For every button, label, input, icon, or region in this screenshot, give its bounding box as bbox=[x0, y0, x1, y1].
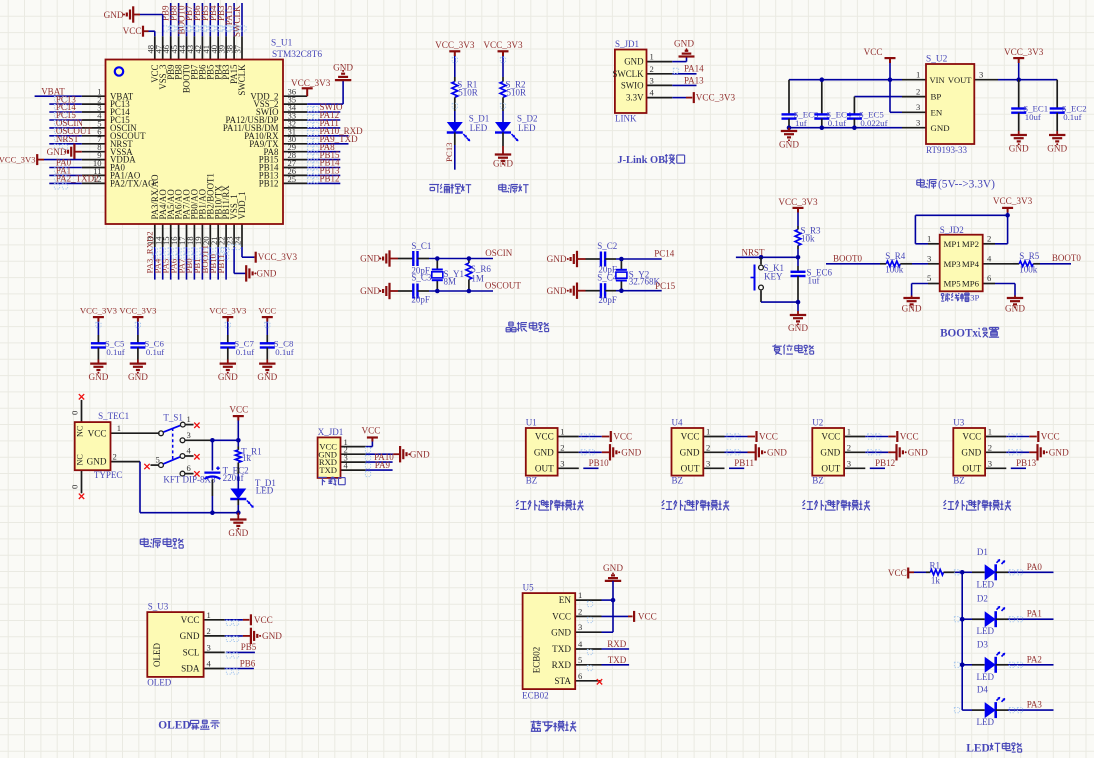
svg-text:LINK: LINK bbox=[615, 114, 637, 124]
svg-text:GND: GND bbox=[218, 372, 238, 382]
svg-text:VCC_3V3: VCC_3V3 bbox=[258, 252, 298, 262]
svg-text:GND: GND bbox=[908, 448, 928, 458]
svg-text:100k: 100k bbox=[1019, 264, 1037, 274]
svg-text:PA13: PA13 bbox=[684, 75, 704, 85]
svg-text:3: 3 bbox=[916, 102, 920, 112]
svg-text:VCC: VCC bbox=[681, 432, 700, 442]
svg-text:S_U2: S_U2 bbox=[926, 55, 948, 65]
svg-text:BZ: BZ bbox=[953, 475, 965, 485]
svg-text:2: 2 bbox=[706, 442, 710, 452]
svg-text:S_R6: S_R6 bbox=[471, 264, 492, 274]
svg-text:SWIO: SWIO bbox=[621, 81, 644, 91]
svg-text:PB13: PB13 bbox=[1016, 458, 1037, 468]
svg-text:VIN: VIN bbox=[930, 75, 945, 85]
svg-text:3.3V: 3.3V bbox=[626, 93, 644, 103]
svg-text:BZ: BZ bbox=[526, 475, 538, 485]
svg-text:1: 1 bbox=[560, 427, 564, 437]
svg-text:GND: GND bbox=[547, 254, 567, 264]
svg-text:OLED: OLED bbox=[158, 720, 190, 732]
svg-text:5: 5 bbox=[927, 273, 931, 283]
svg-text:GND: GND bbox=[551, 627, 571, 637]
svg-text:3P: 3P bbox=[970, 292, 979, 302]
svg-text:R1: R1 bbox=[930, 560, 941, 570]
svg-text:VCC: VCC bbox=[535, 432, 554, 442]
svg-text:NC: NC bbox=[76, 425, 85, 437]
svg-text:1: 1 bbox=[927, 233, 931, 243]
svg-text:ECB02: ECB02 bbox=[532, 647, 542, 674]
svg-text:VCC: VCC bbox=[900, 432, 919, 442]
svg-text:4: 4 bbox=[207, 659, 212, 669]
svg-text:1: 1 bbox=[207, 610, 211, 620]
svg-text:PB11: PB11 bbox=[216, 254, 226, 273]
svg-text:4: 4 bbox=[187, 446, 192, 456]
svg-text:PA2/TX/AO: PA2/TX/AO bbox=[110, 179, 155, 189]
svg-text:S_U3: S_U3 bbox=[148, 601, 169, 611]
svg-text:3: 3 bbox=[847, 458, 851, 468]
svg-text:MP1: MP1 bbox=[944, 239, 961, 249]
svg-text:3: 3 bbox=[560, 458, 564, 468]
svg-text:PC14: PC14 bbox=[654, 249, 675, 259]
svg-text:U1: U1 bbox=[526, 418, 537, 428]
svg-text:RXD: RXD bbox=[552, 660, 572, 670]
svg-text:VCC_3V3: VCC_3V3 bbox=[993, 196, 1033, 206]
svg-text:0.1uf: 0.1uf bbox=[275, 347, 293, 357]
svg-text:OUT: OUT bbox=[535, 463, 554, 473]
svg-text:D1: D1 bbox=[977, 547, 988, 557]
svg-text:VCC: VCC bbox=[888, 568, 907, 578]
svg-text:0: 0 bbox=[70, 411, 80, 415]
svg-text:STA: STA bbox=[554, 676, 571, 686]
svg-text:VCC: VCC bbox=[638, 611, 657, 621]
svg-text:GND: GND bbox=[624, 57, 644, 67]
svg-text:1: 1 bbox=[916, 70, 920, 80]
svg-text:1: 1 bbox=[650, 52, 654, 62]
svg-text:6: 6 bbox=[987, 273, 992, 283]
svg-text:GND: GND bbox=[820, 447, 840, 457]
svg-text:PB12: PB12 bbox=[259, 179, 279, 189]
svg-text:25: 25 bbox=[288, 174, 297, 184]
svg-text:100k: 100k bbox=[885, 264, 904, 274]
svg-text:1: 1 bbox=[988, 427, 992, 437]
svg-text:3: 3 bbox=[578, 622, 582, 632]
svg-text:PB12: PB12 bbox=[875, 458, 895, 468]
svg-text:3: 3 bbox=[207, 642, 211, 652]
svg-text:2: 2 bbox=[988, 442, 992, 452]
svg-text:GND: GND bbox=[767, 448, 787, 458]
svg-text:X_JD1: X_JD1 bbox=[318, 427, 344, 437]
svg-text:D4: D4 bbox=[977, 685, 988, 695]
svg-text:VCC: VCC bbox=[123, 26, 142, 36]
svg-text:MP2: MP2 bbox=[962, 239, 979, 249]
svg-text:BZ: BZ bbox=[812, 475, 824, 485]
svg-text:VCC: VCC bbox=[552, 612, 571, 622]
svg-text:MP5: MP5 bbox=[944, 279, 962, 289]
svg-text:S_R5: S_R5 bbox=[1019, 251, 1040, 261]
svg-text:NRST: NRST bbox=[56, 134, 80, 144]
svg-text:S_C4: S_C4 bbox=[597, 273, 618, 283]
svg-text:BOOT0: BOOT0 bbox=[1052, 253, 1081, 263]
svg-text:KEY: KEY bbox=[764, 271, 783, 281]
svg-text:OUT: OUT bbox=[681, 463, 700, 473]
svg-text:LED: LED bbox=[966, 743, 989, 755]
svg-text:GND: GND bbox=[680, 447, 700, 457]
svg-text:1M: 1M bbox=[471, 274, 484, 284]
svg-text:OUT: OUT bbox=[821, 463, 840, 473]
svg-text:VCC_3V3: VCC_3V3 bbox=[291, 78, 331, 88]
svg-text:S_R4: S_R4 bbox=[885, 251, 906, 261]
svg-text:VCC_3V3: VCC_3V3 bbox=[483, 40, 523, 50]
svg-text:PB11: PB11 bbox=[734, 458, 754, 468]
svg-text:GND: GND bbox=[902, 304, 922, 314]
svg-text:GND: GND bbox=[257, 269, 277, 279]
svg-text:VCC_3V3: VCC_3V3 bbox=[209, 306, 246, 316]
svg-text:GND: GND bbox=[87, 457, 107, 467]
svg-text:RT9193-33: RT9193-33 bbox=[926, 145, 967, 155]
svg-text:GND: GND bbox=[333, 63, 353, 73]
svg-text:GND: GND bbox=[1049, 448, 1069, 458]
svg-text:VCC: VCC bbox=[362, 426, 381, 436]
svg-text:GND: GND bbox=[1009, 144, 1029, 154]
svg-text:RXD: RXD bbox=[607, 639, 627, 649]
svg-text:GND: GND bbox=[128, 372, 148, 382]
svg-text:24: 24 bbox=[233, 236, 243, 245]
svg-text:PA2: PA2 bbox=[1027, 654, 1042, 664]
svg-text:S_C2: S_C2 bbox=[597, 241, 617, 251]
svg-text:MP4: MP4 bbox=[962, 259, 980, 269]
svg-text:PA1: PA1 bbox=[1027, 609, 1042, 619]
svg-text:1: 1 bbox=[117, 423, 121, 433]
svg-text:GND: GND bbox=[262, 631, 282, 641]
svg-text:PB10: PB10 bbox=[589, 458, 610, 468]
svg-text:VCC_3V3: VCC_3V3 bbox=[119, 306, 156, 316]
svg-text:VCC: VCC bbox=[88, 428, 107, 438]
svg-text:2: 2 bbox=[113, 451, 117, 461]
svg-text:6: 6 bbox=[187, 463, 192, 473]
svg-text:LED: LED bbox=[977, 579, 995, 589]
svg-text:2: 2 bbox=[916, 86, 920, 96]
svg-text:0.1uf: 0.1uf bbox=[1063, 112, 1081, 122]
svg-text:MP6: MP6 bbox=[962, 279, 980, 289]
svg-text:ECB02: ECB02 bbox=[522, 690, 549, 700]
svg-text:12: 12 bbox=[93, 174, 102, 184]
svg-text:GND: GND bbox=[180, 631, 200, 641]
svg-text:GND: GND bbox=[47, 147, 67, 157]
svg-text:VCC_3V3: VCC_3V3 bbox=[778, 197, 818, 207]
svg-text:PA9: PA9 bbox=[375, 460, 391, 470]
svg-text:VCC_3V3: VCC_3V3 bbox=[696, 93, 736, 103]
svg-text:TXD: TXD bbox=[608, 655, 627, 665]
svg-text:PA0: PA0 bbox=[1027, 562, 1043, 572]
svg-text:GND: GND bbox=[257, 372, 277, 382]
svg-text:GND: GND bbox=[1005, 304, 1025, 314]
svg-text:OSCOUT: OSCOUT bbox=[485, 281, 522, 291]
svg-text:BOOTx: BOOTx bbox=[940, 328, 978, 340]
svg-text:OSCIN: OSCIN bbox=[485, 248, 513, 258]
svg-text:VCC: VCC bbox=[258, 306, 276, 316]
svg-text:GND: GND bbox=[360, 254, 380, 264]
svg-text:GND: GND bbox=[228, 528, 248, 538]
svg-text:220uf: 220uf bbox=[223, 473, 244, 483]
svg-text:3: 3 bbox=[979, 70, 983, 80]
svg-text:S_D2: S_D2 bbox=[517, 114, 538, 124]
svg-text:EN: EN bbox=[559, 595, 572, 605]
svg-text:1uf: 1uf bbox=[795, 118, 807, 128]
svg-text:LED: LED bbox=[518, 123, 536, 133]
svg-text:GND: GND bbox=[1047, 144, 1067, 154]
svg-text:OUT: OUT bbox=[962, 463, 981, 473]
svg-text:510R: 510R bbox=[507, 87, 527, 97]
svg-text:LED: LED bbox=[977, 672, 995, 682]
svg-text:OLED: OLED bbox=[147, 677, 171, 687]
svg-text:U5: U5 bbox=[523, 582, 534, 592]
svg-text:VCC: VCC bbox=[821, 432, 840, 442]
svg-text:GND: GND bbox=[674, 38, 694, 48]
svg-text:10k: 10k bbox=[801, 234, 815, 244]
svg-text:LED: LED bbox=[256, 486, 274, 496]
svg-text:S_C3: S_C3 bbox=[411, 273, 432, 283]
svg-text:BOOT0: BOOT0 bbox=[833, 253, 862, 263]
svg-text:3: 3 bbox=[927, 253, 931, 263]
svg-text:GND: GND bbox=[88, 372, 108, 382]
svg-text:20pF: 20pF bbox=[598, 295, 617, 305]
svg-text:0.1uf: 0.1uf bbox=[106, 347, 124, 357]
svg-text:2: 2 bbox=[650, 64, 654, 74]
svg-text:TYPEC: TYPEC bbox=[94, 470, 123, 480]
svg-text:S_JD1: S_JD1 bbox=[615, 39, 639, 49]
svg-text:GND: GND bbox=[621, 448, 641, 458]
svg-text:D2: D2 bbox=[977, 594, 988, 604]
svg-text:MP3: MP3 bbox=[944, 259, 962, 269]
svg-text:510R: 510R bbox=[458, 87, 478, 97]
svg-text:TXD: TXD bbox=[552, 644, 571, 654]
svg-text:J-Link OB: J-Link OB bbox=[617, 155, 665, 166]
svg-text:2: 2 bbox=[987, 233, 991, 243]
svg-text:GND: GND bbox=[603, 563, 623, 573]
svg-text:0.1uf: 0.1uf bbox=[236, 347, 254, 357]
svg-text:GND: GND bbox=[360, 286, 380, 296]
svg-text:GND: GND bbox=[493, 159, 513, 169]
svg-text:2: 2 bbox=[560, 442, 564, 452]
svg-text:VCC: VCC bbox=[962, 432, 981, 442]
svg-text:LED: LED bbox=[977, 626, 995, 636]
svg-text:SCL: SCL bbox=[183, 648, 200, 658]
svg-text:PA3: PA3 bbox=[1027, 700, 1043, 710]
svg-text:PB5: PB5 bbox=[241, 642, 257, 652]
svg-text:6: 6 bbox=[578, 671, 583, 681]
svg-text:S_JD2: S_JD2 bbox=[940, 225, 964, 235]
svg-text:0.022uf: 0.022uf bbox=[860, 118, 887, 128]
svg-text:1k: 1k bbox=[242, 453, 252, 463]
svg-text:1: 1 bbox=[847, 427, 851, 437]
svg-text:VCC: VCC bbox=[1041, 432, 1060, 442]
svg-text:NC: NC bbox=[76, 454, 85, 466]
svg-text:4: 4 bbox=[578, 639, 583, 649]
svg-text:VCC_3V3: VCC_3V3 bbox=[0, 155, 36, 165]
svg-text:S_U1: S_U1 bbox=[271, 38, 293, 48]
svg-text:0: 0 bbox=[70, 485, 80, 489]
svg-text:0.1uf: 0.1uf bbox=[828, 118, 846, 128]
svg-text:PB12: PB12 bbox=[320, 174, 340, 184]
svg-text:20pF: 20pF bbox=[411, 295, 430, 305]
svg-text:VCC: VCC bbox=[613, 432, 632, 442]
svg-text:PA14: PA14 bbox=[684, 64, 704, 74]
svg-text:SWCLK: SWCLK bbox=[232, 5, 242, 37]
svg-text:GND: GND bbox=[104, 10, 124, 20]
svg-text:3: 3 bbox=[650, 75, 654, 85]
svg-text:5: 5 bbox=[156, 455, 160, 465]
svg-text:0.1uf: 0.1uf bbox=[146, 347, 164, 357]
svg-text:VCC: VCC bbox=[181, 615, 200, 625]
svg-text:5: 5 bbox=[578, 655, 582, 665]
svg-text:KFT DIP-8X8: KFT DIP-8X8 bbox=[163, 475, 216, 485]
svg-text:LED: LED bbox=[977, 717, 995, 727]
svg-text:4: 4 bbox=[344, 460, 349, 470]
svg-text:GND: GND bbox=[961, 447, 981, 457]
svg-text:4: 4 bbox=[987, 253, 992, 263]
svg-text:3: 3 bbox=[988, 458, 992, 468]
svg-text:(5V-->3.3V): (5V-->3.3V) bbox=[938, 179, 995, 191]
svg-text:1uf: 1uf bbox=[808, 276, 820, 286]
svg-text:T_S1: T_S1 bbox=[163, 413, 183, 423]
svg-text:2: 2 bbox=[847, 442, 851, 452]
svg-text:1: 1 bbox=[706, 427, 710, 437]
svg-text:D3: D3 bbox=[977, 639, 988, 649]
svg-text:2: 2 bbox=[578, 606, 582, 616]
svg-text:VOUT: VOUT bbox=[948, 75, 972, 85]
svg-text:1k: 1k bbox=[931, 576, 941, 586]
svg-text:VCC_3V3: VCC_3V3 bbox=[435, 40, 475, 50]
svg-text:U3: U3 bbox=[953, 418, 964, 428]
svg-text:GND: GND bbox=[534, 447, 554, 457]
svg-text:37: 37 bbox=[233, 44, 243, 53]
svg-text:GND: GND bbox=[931, 123, 950, 133]
svg-text:BP: BP bbox=[931, 92, 942, 102]
svg-text:BZ: BZ bbox=[672, 475, 684, 485]
svg-text:S_C1: S_C1 bbox=[411, 241, 431, 251]
svg-text:3: 3 bbox=[706, 458, 710, 468]
svg-text:TXD: TXD bbox=[319, 465, 337, 475]
svg-text:LED: LED bbox=[470, 123, 488, 133]
svg-text:SWCLK: SWCLK bbox=[612, 69, 644, 79]
svg-text:EN: EN bbox=[931, 107, 943, 117]
svg-text:VCC_3V3: VCC_3V3 bbox=[1004, 47, 1044, 57]
svg-text:OLED: OLED bbox=[152, 643, 162, 667]
svg-text:VCC: VCC bbox=[229, 404, 248, 414]
svg-text:VCC: VCC bbox=[864, 47, 883, 57]
svg-text:VCC_3V3: VCC_3V3 bbox=[80, 306, 117, 316]
svg-text:VCC: VCC bbox=[254, 615, 273, 625]
svg-text:PB6: PB6 bbox=[240, 658, 256, 668]
svg-text:10uf: 10uf bbox=[1025, 112, 1041, 122]
svg-text:8M: 8M bbox=[444, 277, 457, 287]
svg-text:SWCLK: SWCLK bbox=[237, 64, 247, 96]
svg-text:PC13: PC13 bbox=[444, 142, 454, 162]
svg-text:GND: GND bbox=[547, 286, 567, 296]
svg-text:SDA: SDA bbox=[181, 664, 200, 674]
svg-text:VDD_1: VDD_1 bbox=[237, 191, 247, 219]
svg-text:STM32C8T6: STM32C8T6 bbox=[272, 50, 322, 60]
svg-text:3: 3 bbox=[187, 430, 191, 440]
svg-text:3: 3 bbox=[916, 118, 920, 128]
svg-text:2: 2 bbox=[207, 626, 211, 636]
svg-text:1: 1 bbox=[578, 590, 582, 600]
svg-text:GND: GND bbox=[410, 449, 430, 459]
svg-text:GND: GND bbox=[779, 140, 799, 150]
svg-text:1: 1 bbox=[187, 414, 191, 424]
svg-text:S_TEC1: S_TEC1 bbox=[98, 411, 129, 421]
svg-text:VCC: VCC bbox=[759, 432, 778, 442]
svg-text:PC15: PC15 bbox=[655, 281, 676, 291]
svg-text:4: 4 bbox=[650, 88, 655, 98]
svg-text:U2: U2 bbox=[812, 418, 823, 428]
svg-text:S_D1: S_D1 bbox=[469, 114, 490, 124]
svg-text:GND: GND bbox=[788, 323, 808, 333]
svg-text:U4: U4 bbox=[672, 418, 683, 428]
